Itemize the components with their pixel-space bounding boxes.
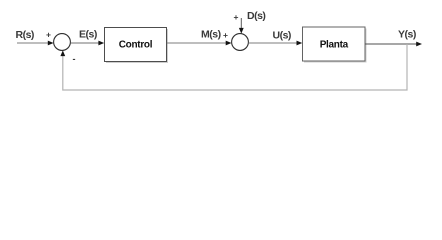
wire S2 to Planta xyxy=(248,42,297,44)
arrowhead output Y(s) xyxy=(416,42,422,47)
summing junction S2 xyxy=(232,34,249,51)
svg-text:+: + xyxy=(223,30,228,40)
svg-text:E(s): E(s) xyxy=(79,29,97,41)
wire feedback branch from output node down, across bottom, and up to S1 xyxy=(63,44,407,90)
svg-text:-: - xyxy=(73,54,76,64)
summing junction S1 xyxy=(54,34,71,51)
block Planta shadow xyxy=(304,29,367,63)
arrowhead into S2 xyxy=(226,41,232,46)
block Planta xyxy=(303,27,366,61)
svg-text:M(s): M(s) xyxy=(201,28,221,40)
arrowhead into Planta xyxy=(297,41,303,46)
svg-text:+: + xyxy=(234,12,239,22)
svg-text:Y(s): Y(s) xyxy=(398,29,416,41)
svg-text:Control: Control xyxy=(119,40,153,51)
block Control shadow xyxy=(106,29,168,63)
svg-text:Planta: Planta xyxy=(320,40,349,51)
svg-text:+: + xyxy=(46,30,51,40)
arrowhead D(s) into S2 top xyxy=(239,28,244,34)
wire R(s) to summer S1 xyxy=(17,42,49,44)
block Control xyxy=(105,28,167,62)
wire Control to summer S2 xyxy=(167,42,227,44)
wire S1 to Control xyxy=(71,42,100,44)
wire Planta to output Y(s) xyxy=(365,43,417,45)
svg-text:D(s): D(s) xyxy=(247,10,265,22)
arrowhead feedback into S1 bottom xyxy=(60,50,65,56)
arrowhead into S1 xyxy=(48,41,54,46)
wire D(s) into S2 xyxy=(240,18,242,30)
svg-text:U(s): U(s) xyxy=(273,30,291,42)
arrowhead into Control xyxy=(98,41,104,46)
svg-text:R(s): R(s) xyxy=(16,29,34,41)
